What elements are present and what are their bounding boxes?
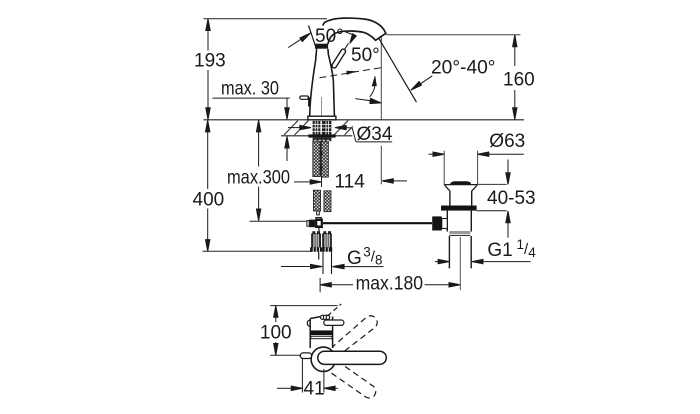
dimension max.300 vertical line with arrows	[256, 120, 260, 221]
pop-up rod left segment	[250, 220, 308, 222]
dimension 193 vertical line with arrows	[206, 19, 210, 120]
svg-text:41: 41	[304, 379, 325, 400]
bottom view top reference line	[270, 305, 338, 307]
dimension Ø34 arrows and leader	[288, 125, 392, 141]
svg-text:40-53: 40-53	[487, 188, 536, 209]
washer below counter (dark)	[308, 134, 335, 137]
pop-up rod to drain	[323, 222, 432, 224]
svg-text:max. 30: max. 30	[221, 78, 279, 99]
pop-up waste plug (dark dome)	[450, 181, 471, 185]
drain lower body	[447, 211, 471, 232]
drain flange top line	[444, 184, 477, 186]
pull rod knob at back	[300, 96, 310, 107]
flexible hose columns (braided)	[313, 190, 320, 211]
front view collar dark band	[310, 330, 332, 335]
drain extension lines for Ø63	[443, 151, 445, 185]
front view dashed lever up position	[328, 304, 342, 316]
handle upper position line	[309, 26, 318, 51]
top reference line (spout top level)	[204, 18, 328, 20]
base plate	[308, 116, 336, 120]
spout stream diagonal line	[379, 38, 417, 102]
front view spout nozzle (left)	[300, 353, 311, 359]
check valves	[312, 231, 331, 247]
svg-text:50°: 50°	[315, 26, 344, 47]
svg-text:Ø34: Ø34	[357, 124, 393, 145]
faucet centerline	[321, 97, 323, 120]
svg-text:max.300: max.300	[227, 167, 290, 188]
left tail stub	[318, 252, 320, 260]
front view lever pointing right	[324, 320, 344, 325]
svg-text:193: 193	[194, 51, 226, 72]
svg-text:20°-40°: 20°-40°	[431, 58, 496, 79]
front view body circle	[311, 347, 335, 371]
20-40 leader arrow	[411, 76, 433, 90]
threaded shank columns (braided)	[313, 141, 320, 176]
dimension G1 1/4 arrows	[435, 259, 531, 263]
dimension G3/8 arrows	[281, 264, 384, 269]
lever handle	[332, 49, 346, 68]
svg-text:100: 100	[260, 322, 292, 343]
counter top line	[204, 119, 525, 121]
svg-text:max.180: max.180	[356, 274, 424, 295]
dashed handle position upper right	[333, 316, 378, 357]
connection nut bases	[310, 247, 332, 251]
dimension 160 vertical line with arrows	[513, 35, 517, 120]
drain upper body	[449, 191, 451, 206]
angle arc with arrow (spout angle)	[370, 76, 376, 97]
right connection tube	[322, 252, 324, 274]
spout	[323, 18, 386, 44]
counter bottom line	[281, 135, 352, 137]
mounting nut with scalloped bottom	[313, 138, 332, 143]
tee / rod junction assembly	[307, 218, 323, 233]
dimension Ø63 arrows	[429, 152, 524, 156]
left valve	[312, 231, 315, 234]
cartridge cap (dark)	[315, 44, 328, 49]
clevis connector	[442, 219, 448, 229]
bottom view lower reference line	[270, 354, 302, 356]
right valve	[323, 231, 326, 234]
svg-text:160: 160	[503, 69, 535, 90]
front view lower collar	[311, 336, 332, 338]
faucet front view: body	[310, 315, 332, 348]
left hose end stub	[317, 211, 320, 215]
rubber seal ring (dark)	[441, 206, 477, 211]
50 first leader to handle line	[334, 31, 356, 66]
dashed handle position lower right	[329, 361, 375, 398]
svg-text:50°: 50°	[351, 45, 380, 66]
rod clevis (dark)	[432, 216, 442, 230]
front view back hook	[307, 320, 310, 327]
svg-text:114: 114	[335, 172, 366, 193]
solid lever capsule	[318, 351, 387, 364]
max.30 top arrow	[285, 98, 289, 161]
svg-text:400: 400	[193, 190, 225, 211]
dimension 41	[277, 359, 338, 393]
top right reference line (spout outlet level)	[386, 34, 521, 36]
counter section hatching left	[284, 121, 309, 136]
dimension 400 vertical line with arrows	[206, 120, 210, 251]
pull rod between shank columns	[320, 141, 322, 176]
lower angle arrow to vertical line	[355, 98, 381, 103]
drain flange concave sides	[445, 185, 478, 191]
drain tailpipe	[448, 236, 450, 268]
threaded shank inside counter hole	[313, 121, 332, 135]
dimension 114 arrows	[294, 179, 407, 184]
400 bottom reference line	[203, 250, 313, 252]
front view lever pivot bump	[321, 315, 330, 319]
dimension 40-53	[477, 160, 511, 238]
faucet body (bottle shape)	[310, 49, 335, 117]
50 left leader arrow	[288, 33, 310, 48]
max.30 bottom arrow	[286, 136, 288, 161]
dimension 100	[274, 306, 278, 356]
counter section hatching right	[334, 121, 353, 136]
dimension max. 30 leader line	[212, 97, 289, 99]
vertical extension line from spout tip	[380, 37, 382, 120]
faucet centerline stub below shank	[321, 177, 323, 187]
dash-dot handle travel line	[320, 68, 382, 78]
dimension max.180	[320, 278, 460, 292]
drain centerline	[459, 237, 461, 290]
svg-text:Ø63: Ø63	[489, 131, 525, 152]
drain lock nut	[449, 232, 470, 237]
